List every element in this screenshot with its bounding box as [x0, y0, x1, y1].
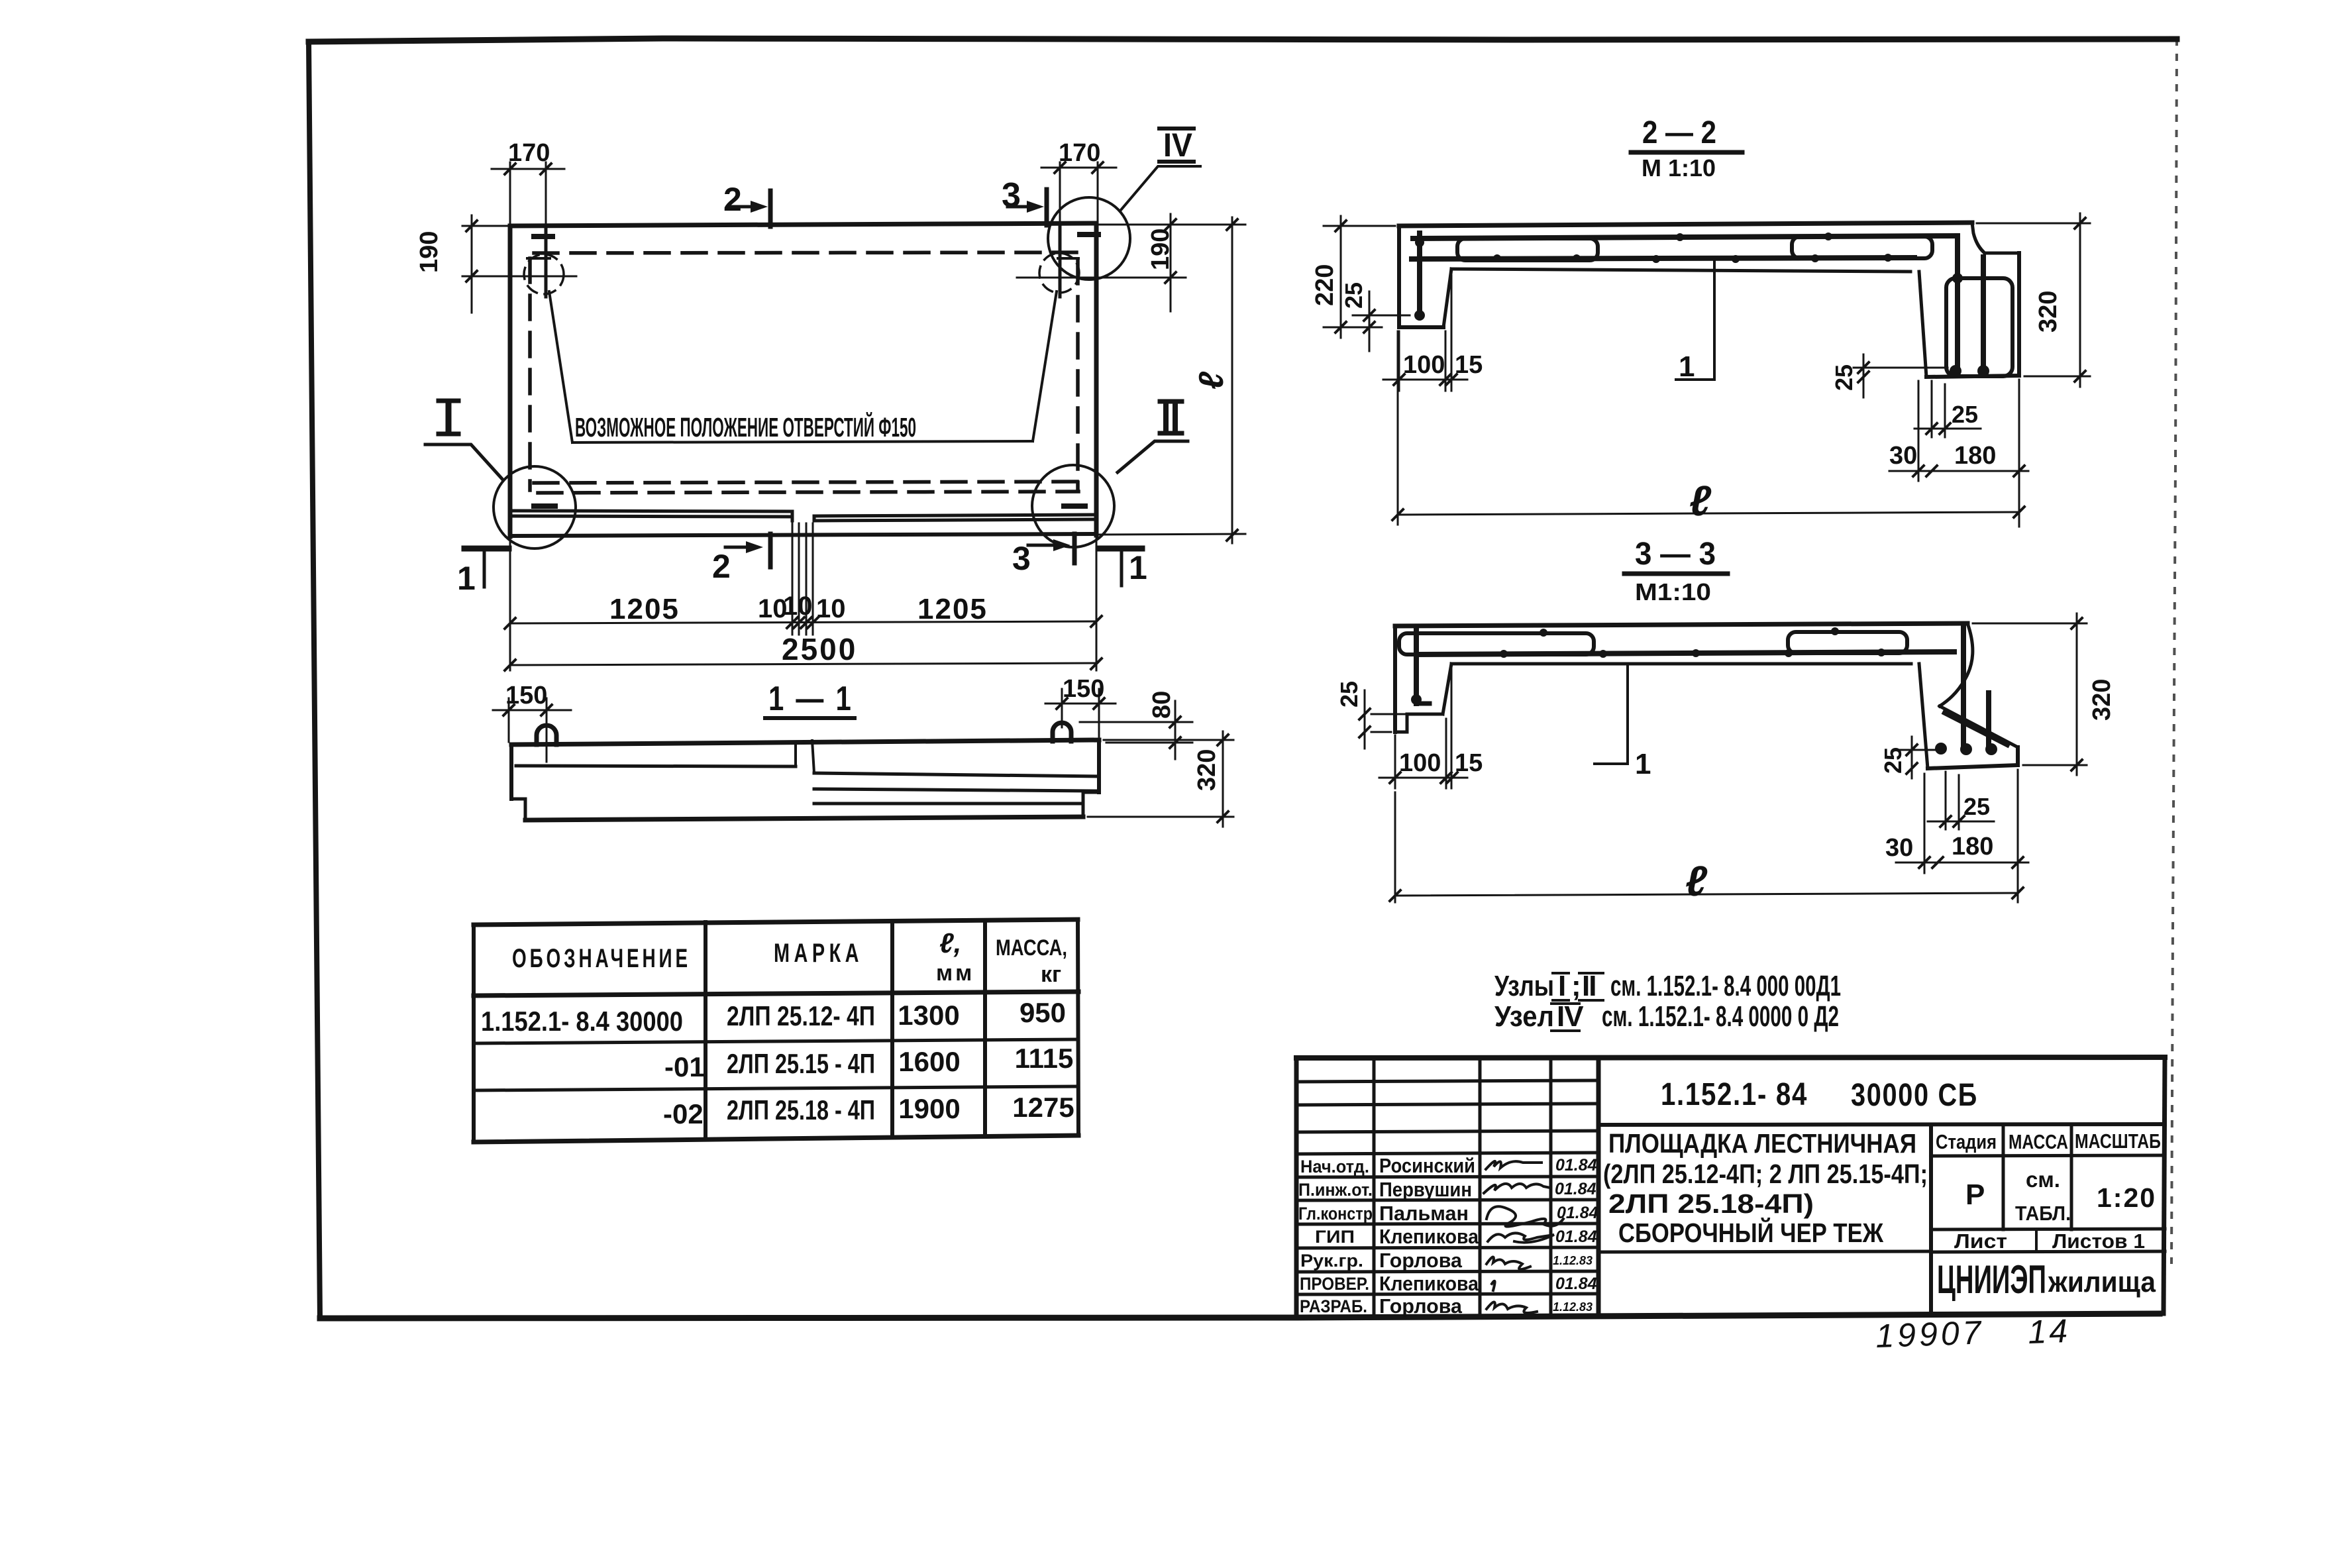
svg-text:1: 1: [1635, 748, 1651, 780]
node circle IV: [1048, 197, 1130, 280]
svg-text:25: 25: [1830, 364, 1857, 391]
section 1-1 dim 150 right: [1045, 675, 1116, 737]
title block: right part grid: [1598, 1124, 2165, 1314]
svg-text:220: 220: [1311, 264, 1339, 306]
notes: node number over/underlines: [1551, 973, 1603, 1031]
section 2-2 concrete outline: [1399, 223, 2019, 377]
section 1-1 title: [765, 680, 855, 718]
svg-text:2: 2: [712, 548, 731, 585]
dim 2500: [505, 632, 1102, 670]
dim 190 (left): [415, 215, 576, 313]
section 3-3 reinforcement dots: [1411, 627, 1997, 755]
section 2-2 dim 320: [1977, 213, 2090, 387]
section 2-2 position mark 1: [1676, 260, 1714, 383]
svg-text:180: 180: [1954, 442, 1996, 470]
parts table row 2: [664, 1043, 1073, 1082]
svg-text:СБОРОЧНЫЙ ЧЕР ТЕЖ: СБОРОЧНЫЙ ЧЕР ТЕЖ: [1618, 1218, 1884, 1248]
section 2-2 title: [1631, 115, 1742, 182]
svg-text:1 — 1: 1 — 1: [768, 680, 853, 718]
svg-text:25: 25: [1963, 793, 1990, 820]
svg-text:150: 150: [505, 682, 547, 709]
title block: document number: [1661, 1077, 1978, 1113]
node circle I: [494, 466, 576, 549]
section 2-2 dim l: [1392, 331, 2024, 525]
svg-text:кг: кг: [1041, 962, 1061, 987]
svg-text:М 1:10: М 1:10: [1642, 154, 1716, 182]
svg-text:Узлы: Узлы: [1494, 970, 1554, 1002]
svg-text:30000 СБ: 30000 СБ: [1851, 1078, 1978, 1113]
svg-text:1600: 1600: [898, 1046, 960, 1077]
notes about nodes: [1494, 970, 1841, 1033]
section 1-1 right lifting loop: [1053, 723, 1071, 741]
svg-text:Р: Р: [1965, 1178, 1985, 1211]
plan view: inner rib edges (solid): [510, 224, 1096, 521]
title block: staff rows labels: [1298, 1157, 1373, 1316]
section 2-2 dim 25 (right vertical): [1830, 354, 1948, 397]
svg-text:2ЛП 25.18-4П): 2ЛП 25.18-4П): [1608, 1188, 1814, 1219]
svg-text:Клепикова: Клепикова: [1379, 1272, 1479, 1295]
svg-text:15: 15: [1455, 749, 1483, 777]
svg-text:Нач.отд.: Нач.отд.: [1300, 1157, 1369, 1176]
section 3-3 dim 25 (right vertical): [1879, 737, 1941, 778]
svg-text:Рук.гр.: Рук.гр.: [1300, 1251, 1363, 1271]
svg-text:II: II: [1582, 970, 1595, 1002]
svg-text:ℓ,: ℓ,: [939, 927, 961, 959]
svg-text:см. 1.152.1- 8.4 0000 0 Д2: см. 1.152.1- 8.4 0000 0 Д2: [1602, 1000, 1839, 1033]
svg-text:1.152.1- 8.4 30000: 1.152.1- 8.4 30000: [481, 1006, 683, 1037]
section 3-3 title: [1624, 537, 1728, 605]
svg-text:МАССА,: МАССА,: [996, 935, 1067, 961]
section 3-3 dim 25 (bottom horizontal): [1928, 772, 1994, 829]
title block: signatures squiggles: [1484, 1161, 1563, 1313]
plan view: slab outer contour: [510, 223, 1096, 537]
svg-text:ОБОЗНАЧЕНИЕ: ОБОЗНАЧЕНИЕ: [512, 944, 691, 973]
section 1-1 slab outline: [511, 740, 1099, 820]
section 3-3 dims 30 and 180: [1885, 770, 2028, 902]
svg-text:ТАБЛ.: ТАБЛ.: [2015, 1202, 2071, 1225]
label IV with leader: [1121, 127, 1200, 210]
svg-text:IV: IV: [1163, 127, 1193, 164]
svg-text:1.152.1- 84: 1.152.1- 84: [1661, 1077, 1808, 1112]
svg-text:Горлова: Горлова: [1379, 1294, 1463, 1318]
section mark 3 (top): [1002, 176, 1047, 225]
svg-text:МАСШТАБ: МАСШТАБ: [2075, 1129, 2161, 1153]
svg-text:I: I: [1558, 970, 1566, 1002]
svg-text:170: 170: [1059, 139, 1100, 167]
svg-text:Горлова: Горлова: [1379, 1249, 1463, 1272]
section 2-2 dims 100 and 15: [1383, 276, 1483, 391]
svg-text:ЦНИИЭП: ЦНИИЭП: [1937, 1257, 2046, 1302]
PAGE-FRAME: [309, 38, 2177, 1318]
node circle II: [1032, 465, 1114, 547]
svg-text:ПРОВЕР.: ПРОВЕР.: [1300, 1274, 1369, 1294]
section 2-2 dim 25 (bottom horizontal): [1914, 381, 1981, 437]
title block: outer border: [1296, 1057, 2165, 1318]
svg-text:150: 150: [1063, 675, 1104, 703]
svg-text:см. 1.152.1- 8.4 000 00Д1: см. 1.152.1- 8.4 000 00Д1: [1610, 970, 1841, 1002]
section 1-1 dim 80: [1080, 691, 1192, 759]
section 2-2 dim 220: [1311, 216, 1395, 338]
svg-text:1.12.83: 1.12.83: [1553, 1300, 1593, 1314]
section 3-3 dim 25 (left): [1335, 681, 1421, 749]
svg-text:25: 25: [1335, 681, 1363, 707]
svg-text:1.12.83: 1.12.83: [1553, 1254, 1593, 1267]
svg-text:см.: см.: [2026, 1167, 2060, 1192]
svg-text:19907: 19907: [1875, 1314, 1985, 1355]
svg-text:01.84: 01.84: [1555, 1156, 1597, 1175]
svg-text:-01: -01: [664, 1051, 705, 1082]
svg-text:РАЗРАБ.: РАЗРАБ.: [1300, 1296, 1367, 1316]
section mark 2 (top): [723, 181, 770, 227]
svg-text:100: 100: [1403, 351, 1445, 379]
svg-text:-02: -02: [663, 1098, 704, 1129]
svg-text:2ЛП 25.18 - 4П: 2ЛП 25.18 - 4П: [727, 1094, 875, 1125]
svg-text:ВОЗМОЖНОЕ ПОЛОЖЕНИЕ ОТВЕРСТИЙ: ВОЗМОЖНОЕ ПОЛОЖЕНИЕ ОТВЕРСТИЙ Ф150: [575, 412, 916, 443]
dim 190 (right): [1017, 214, 1245, 311]
svg-text:3 — 3: 3 — 3: [1635, 537, 1716, 572]
svg-text:01.84: 01.84: [1555, 1180, 1596, 1198]
section 3-3 reinforcement bars: [1399, 625, 2007, 749]
dim l (plan right): [1100, 217, 1245, 543]
section 3-3 position mark 1: [1594, 664, 1651, 780]
svg-text:25: 25: [1952, 401, 1978, 428]
parts table row 3: [663, 1092, 1074, 1129]
svg-text:30: 30: [1885, 834, 1913, 862]
svg-text:25: 25: [1879, 747, 1907, 774]
title block: stage/mass/scale headers: [1936, 1129, 2161, 1253]
svg-text:2ЛП 25.12- 4П: 2ЛП 25.12- 4П: [727, 1000, 875, 1031]
section mark 2 (bottom): [712, 534, 770, 585]
svg-text:2 — 2: 2 — 2: [1642, 115, 1716, 150]
svg-text:30: 30: [1889, 442, 1917, 470]
svg-text:Росинский: Росинский: [1379, 1154, 1475, 1177]
svg-text:;: ;: [1571, 970, 1581, 1002]
svg-text:1205: 1205: [609, 593, 680, 625]
title block: drawing name: [1603, 1128, 1928, 1248]
parts table header texts: [512, 927, 1067, 987]
svg-text:П.инж.от.: П.инж.от.: [1298, 1180, 1373, 1200]
svg-text:80: 80: [1148, 691, 1176, 719]
section mark 1 (right): [1100, 549, 1147, 586]
svg-text:100: 100: [1399, 749, 1441, 777]
section 3-3 dims 100 and 15: [1379, 669, 1483, 788]
svg-text:1: 1: [457, 560, 476, 597]
svg-text:Стадия: Стадия: [1936, 1130, 1997, 1153]
section 2-2 reinforcement dots: [1414, 233, 1989, 377]
svg-text:Гл.констр: Гл.констр: [1298, 1204, 1373, 1224]
dim 170 (top right): [1041, 139, 1116, 221]
svg-text:10: 10: [816, 594, 846, 623]
svg-text:2: 2: [723, 181, 742, 218]
svg-text:Клепикова: Клепикова: [1379, 1225, 1479, 1248]
section 1-1 left lifting loop: [537, 725, 556, 745]
svg-text:ℓ: ℓ: [1192, 371, 1231, 390]
svg-text:320: 320: [2088, 679, 2116, 721]
text: possible openings note: [575, 412, 916, 443]
plan view: hidden edges dashed: [530, 252, 1078, 493]
small dashed node circles at inner corners: [524, 253, 1079, 294]
svg-text:15: 15: [1455, 351, 1483, 379]
section 3-3 concrete outline: [1395, 623, 2018, 768]
svg-text:ℓ: ℓ: [1685, 857, 1708, 905]
label I with leader: [425, 401, 502, 479]
section 1-1 dim 150 left: [493, 682, 571, 762]
svg-text:320: 320: [2034, 291, 2062, 333]
section 1-1 dim 320: [1088, 731, 1233, 827]
svg-text:1205: 1205: [917, 593, 988, 625]
svg-text:Лист: Лист: [1954, 1229, 2007, 1253]
svg-text:IV: IV: [1557, 1000, 1584, 1033]
section mark 1 (left): [457, 549, 509, 597]
dim 170 (top left): [492, 139, 564, 223]
title block: dates column: [1553, 1156, 1598, 1314]
svg-text:1: 1: [1679, 350, 1695, 383]
parts table: [474, 919, 1078, 1142]
svg-text:Пальман: Пальман: [1379, 1202, 1469, 1225]
svg-text:Листов 1: Листов 1: [2052, 1229, 2145, 1253]
svg-text:МАРКА: МАРКА: [774, 939, 863, 968]
svg-text:мм: мм: [936, 961, 974, 986]
svg-text:190: 190: [1147, 229, 1175, 270]
svg-text:10: 10: [783, 592, 813, 621]
svg-text:1900: 1900: [898, 1093, 960, 1124]
svg-text:1275: 1275: [1012, 1092, 1074, 1123]
plan view: lifting loops (plan marks): [534, 235, 1098, 506]
svg-text:14: 14: [2027, 1312, 2071, 1351]
section 3-3 dim l: [1390, 792, 2023, 905]
svg-text:01.84: 01.84: [1555, 1228, 1597, 1246]
dim row 1205/10/10/10/1205: [505, 523, 1102, 670]
svg-text:3: 3: [1002, 176, 1021, 215]
svg-text:25: 25: [1340, 282, 1367, 309]
title block: organization name: [1937, 1257, 2156, 1302]
section 2-2 reinforcement bars: [1412, 233, 2012, 376]
svg-text:2ЛП 25.15 - 4П: 2ЛП 25.15 - 4П: [727, 1048, 875, 1079]
svg-text:1300: 1300: [898, 1000, 959, 1031]
svg-text:Узел: Узел: [1494, 1000, 1554, 1033]
svg-text:М1:10: М1:10: [1635, 578, 1711, 605]
svg-text:320: 320: [1193, 749, 1221, 791]
svg-text:01.84: 01.84: [1555, 1275, 1597, 1293]
plan view: inner trapezoid (rib haunch visible edge): [527, 258, 1078, 443]
section mark 3 (bottom): [1012, 534, 1074, 577]
svg-text:1115: 1115: [1015, 1043, 1074, 1074]
svg-text:Первушин: Первушин: [1379, 1178, 1472, 1201]
svg-text:180: 180: [1952, 833, 1993, 861]
svg-text:170: 170: [508, 139, 550, 167]
svg-text:ПЛОЩАДКА ЛЕСТНИЧНАЯ: ПЛОЩАДКА ЛЕСТНИЧНАЯ: [1608, 1128, 1916, 1159]
section 2-2 dims 30 and 180: [1889, 380, 2028, 527]
handwritten sheet number: [1875, 1312, 2071, 1355]
svg-text:2500: 2500: [782, 632, 857, 666]
svg-text:жилища: жилища: [2048, 1266, 2156, 1298]
svg-text:МАССА: МАССА: [2009, 1130, 2068, 1153]
svg-text:ГИП: ГИП: [1315, 1227, 1355, 1247]
svg-text:ℓ: ℓ: [1689, 477, 1712, 525]
parts table row 1: [481, 997, 1066, 1037]
title block: staff table grid: [1296, 1058, 1598, 1316]
section 2-2 dim 25 (left): [1340, 282, 1410, 351]
svg-text:190: 190: [415, 231, 443, 273]
svg-text:1:20: 1:20: [2097, 1182, 2156, 1213]
svg-text:950: 950: [1019, 997, 1066, 1028]
label II with leader: [1118, 401, 1188, 472]
svg-text:1: 1: [1129, 549, 1147, 586]
title block: staff names: [1379, 1154, 1479, 1318]
section 3-3 dim 320: [1973, 613, 2116, 775]
svg-text:(2ЛП 25.12-4П; 2 ЛП 25.15-4П;: (2ЛП 25.12-4П; 2 ЛП 25.15-4П;: [1603, 1159, 1928, 1189]
